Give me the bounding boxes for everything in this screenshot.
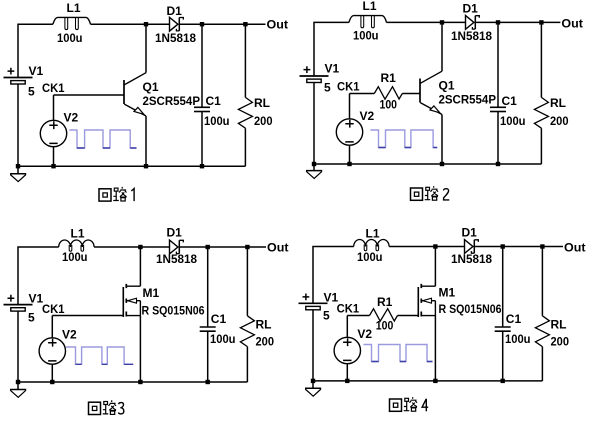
- node: Out: [267, 241, 289, 255]
- wire: D1 cathode to Out: [179, 23, 265, 25]
- wire: R1 to Q1 base: [402, 93, 420, 95]
- svg-text:M1: M1: [439, 286, 456, 300]
- wire: D1 cathode to Out: [475, 21, 560, 23]
- node: C1 bottom junction: [496, 162, 500, 166]
- wire: D1 cathode to Out: [179, 246, 266, 248]
- svg-text:200: 200: [551, 334, 570, 348]
- node: emitter junction: [440, 162, 444, 166]
- wire: L1 to D1 anode: [94, 246, 169, 248]
- node CK1: [42, 81, 65, 95]
- svg-text:C1: C1: [211, 312, 227, 326]
- wire: bottom rail: [18, 381, 247, 383]
- label: circuit name 回: [89, 402, 101, 414]
- svg-text:200: 200: [550, 114, 569, 128]
- svg-text:100u: 100u: [357, 250, 383, 264]
- capacitor C1 100u: [200, 247, 236, 382]
- wire: bottom rail: [313, 380, 542, 382]
- svg-text:RL: RL: [550, 96, 566, 110]
- inductor L1 100u: [349, 0, 387, 43]
- svg-text:2SCR554P: 2SCR554P: [439, 93, 497, 107]
- wire: V1 positive to L1 (left rail + top): [314, 22, 349, 76]
- wire: L1 to D1 anode: [387, 21, 466, 23]
- svg-text:Out: Out: [267, 241, 289, 255]
- svg-text:D1: D1: [167, 4, 183, 18]
- node: C1 top junction: [200, 22, 204, 26]
- svg-text:V1: V1: [325, 61, 340, 75]
- label: circuit number 3: [118, 403, 123, 414]
- wire: V1 positive to L1 (left rail + top): [313, 247, 354, 304]
- svg-text:RL: RL: [551, 318, 567, 332]
- svg-text:R1: R1: [381, 71, 397, 85]
- svg-text:200: 200: [256, 334, 275, 348]
- svg-text:C1: C1: [206, 94, 222, 108]
- transistor Q1 2SCR554P: [420, 71, 496, 114]
- wire: V2 plus to node CK1: [53, 95, 55, 121]
- battery V1 5V: [4, 292, 44, 325]
- waveform: V2 pulse train: [66, 347, 133, 364]
- svg-text:R SQ015N06: R SQ015N06: [142, 304, 205, 318]
- ground: [305, 381, 321, 396]
- svg-text:V2: V2: [360, 109, 375, 123]
- wire: M1 source to bottom rail: [139, 316, 141, 382]
- wire: V2 plus to node CK1: [51, 316, 53, 339]
- svg-text:L1: L1: [67, 1, 81, 15]
- pulse source V2: [39, 328, 77, 364]
- node: RL top junction: [540, 244, 544, 248]
- node: C1 top junction: [496, 20, 500, 24]
- circuit 2: boost converter with BJT: [300, 0, 583, 200]
- label: circuit name 回: [411, 188, 423, 200]
- svg-text:R1: R1: [377, 295, 393, 309]
- wire: CK1 to R1: [350, 93, 375, 95]
- svg-text:100u: 100u: [57, 31, 83, 45]
- svg-text:1N5818: 1N5818: [156, 252, 197, 266]
- svg-text:100u: 100u: [62, 250, 88, 264]
- node: RL top junction: [243, 22, 247, 26]
- node: RL top junction: [245, 245, 249, 249]
- svg-text:100u: 100u: [210, 332, 236, 346]
- node CK1: [337, 80, 360, 94]
- waveform: V2 pulse train: [69, 130, 136, 148]
- wire: CK1 to M1 gate: [52, 315, 123, 317]
- node: V2 bottom junction: [347, 162, 351, 166]
- wire: V1 negative to bottom rail: [17, 311, 19, 382]
- waveform: V2 pulse train: [364, 345, 433, 362]
- resistor R1 100: [374, 71, 402, 112]
- wire: V1 negative to bottom rail: [17, 84, 19, 166]
- battery V1 5V: [299, 290, 339, 322]
- wire: R1 to M1 gate: [398, 315, 419, 317]
- svg-text:V1: V1: [29, 64, 44, 78]
- label: circuit name 路: [425, 186, 438, 200]
- wire: Q1 emitter to bottom rail: [145, 116, 147, 166]
- svg-text:L1: L1: [71, 227, 85, 241]
- capacitor C1 100u: [194, 24, 230, 166]
- label: circuit name 回: [99, 189, 111, 201]
- svg-text:1N5818: 1N5818: [155, 31, 196, 45]
- svg-text:100u: 100u: [204, 114, 230, 128]
- circuit 1: boost converter with BJT: [4, 1, 289, 201]
- transistor M1 RSQ015N06 (N-MOSFET): [123, 284, 204, 318]
- svg-text:V2: V2: [357, 327, 372, 341]
- diode D1 1N5818 (Schottky): [156, 226, 197, 266]
- node: collector junction on top rail: [440, 20, 444, 24]
- svg-text:1N5818: 1N5818: [451, 252, 492, 266]
- node: C1 top junction: [501, 244, 505, 248]
- svg-text:Q1: Q1: [439, 79, 455, 93]
- wire: Q1 emitter to bottom rail: [441, 115, 443, 165]
- circuit 4: boost converter with MOSFET: [299, 226, 586, 412]
- ground: [10, 166, 26, 181]
- wire: V2 minus to bottom rail: [53, 147, 55, 167]
- node: ground junction: [16, 164, 20, 168]
- svg-text:5: 5: [324, 80, 331, 94]
- svg-text:2SCR554P: 2SCR554P: [143, 94, 201, 108]
- node: drain junction on top rail: [433, 244, 437, 248]
- node: RL top junction: [539, 20, 543, 24]
- wire: L1 to D1 anode: [91, 23, 170, 25]
- svg-text:D1: D1: [167, 226, 183, 240]
- node: ground junction: [312, 162, 316, 166]
- svg-text:D1: D1: [463, 2, 479, 16]
- wire: CK1 to R1: [347, 315, 369, 317]
- wire: M1 source to bottom rail: [434, 316, 436, 381]
- svg-text:1N5818: 1N5818: [451, 29, 492, 43]
- pulse source V2: [336, 109, 374, 145]
- wire: V2 plus to node CK1: [349, 94, 351, 120]
- wire: M1 drain to top rail: [139, 247, 141, 286]
- label: circuit name 路: [103, 400, 116, 414]
- node: Out: [561, 17, 583, 31]
- label: circuit name 回: [390, 399, 402, 411]
- wire: V1 negative to bottom rail: [312, 310, 314, 381]
- battery V1 5V: [4, 64, 44, 99]
- svg-text:5: 5: [28, 85, 35, 99]
- svg-text:M1: M1: [143, 286, 160, 300]
- capacitor C1 100u: [490, 22, 526, 164]
- diode D1 1N5818 (Schottky): [451, 2, 492, 43]
- node: C1 bottom junction: [206, 380, 210, 384]
- wire: L1 to D1 anode: [389, 246, 464, 248]
- svg-text:100u: 100u: [505, 332, 531, 346]
- node: source junction: [433, 379, 437, 383]
- label: circuit name 路: [404, 397, 417, 411]
- svg-text:100u: 100u: [353, 29, 379, 43]
- ground: [306, 164, 322, 178]
- node: ground junction: [311, 379, 315, 383]
- svg-text:CK1: CK1: [42, 81, 65, 95]
- wire: M1 drain to top rail: [434, 247, 436, 287]
- node: emitter junction: [144, 164, 148, 168]
- svg-text:5: 5: [28, 310, 35, 324]
- resistor RL 200: [238, 24, 272, 166]
- svg-text:Out: Out: [267, 17, 289, 31]
- diode D1 1N5818 (Schottky): [451, 226, 492, 266]
- wire: V2 plus to node CK1: [346, 316, 348, 338]
- wire: V1 positive to L1 (left rail + top): [18, 247, 59, 305]
- wire: V2 minus to bottom rail: [346, 364, 348, 381]
- inductor L1 100u: [53, 1, 91, 45]
- wire: Q1 collector to top rail: [145, 24, 147, 72]
- node CK1: [42, 302, 65, 316]
- node: drain junction on top rail: [138, 245, 142, 249]
- svg-text:Out: Out: [561, 17, 583, 31]
- wire: D1 cathode to Out: [474, 246, 563, 248]
- svg-text:200: 200: [254, 114, 273, 128]
- pulse source V2: [40, 110, 78, 146]
- svg-text:100: 100: [376, 318, 394, 332]
- svg-text:CK1: CK1: [337, 80, 360, 94]
- ground: [10, 382, 26, 397]
- svg-text:Q1: Q1: [143, 80, 159, 94]
- svg-text:C1: C1: [506, 312, 522, 326]
- circuit 3: boost converter with MOSFET: [4, 226, 289, 415]
- svg-text:C1: C1: [502, 94, 518, 108]
- svg-text:Out: Out: [564, 241, 586, 255]
- node: C1 top junction: [206, 245, 210, 249]
- node: Out: [564, 241, 586, 255]
- wire: CK1 to Q1 base: [54, 94, 125, 96]
- label: circuit number 1: [131, 189, 134, 202]
- svg-text:RL: RL: [256, 318, 272, 332]
- resistor R1 100: [370, 295, 398, 333]
- wire: V1 positive to L1 (left rail + top): [18, 24, 53, 77]
- svg-text:V2: V2: [64, 110, 79, 124]
- node CK1: [337, 302, 360, 316]
- node: source junction: [138, 380, 142, 384]
- svg-text:CK1: CK1: [337, 302, 360, 316]
- diode D1 1N5818 (Schottky): [155, 4, 196, 45]
- resistor RL 200: [534, 22, 568, 164]
- wire: bottom rail: [18, 165, 245, 167]
- inductor L1 100u: [354, 227, 389, 265]
- svg-text:D1: D1: [462, 226, 478, 240]
- wire: Q1 collector to top rail: [441, 22, 443, 71]
- wire: V2 minus to bottom rail: [51, 364, 53, 382]
- node: C1 bottom junction: [200, 164, 204, 168]
- svg-text:R SQ015N06: R SQ015N06: [439, 302, 502, 316]
- label: circuit number 2: [444, 189, 450, 200]
- svg-text:L1: L1: [363, 0, 377, 13]
- svg-text:V2: V2: [62, 328, 77, 342]
- transistor Q1 2SCR554P: [124, 73, 200, 116]
- node: collector junction on top rail: [144, 22, 148, 26]
- label: circuit number 4: [422, 399, 428, 412]
- transistor M1 RSQ015N06 (N-MOSFET): [418, 284, 501, 317]
- svg-text:CK1: CK1: [42, 302, 65, 316]
- node: V2 bottom junction: [50, 380, 54, 384]
- node: C1 bottom junction: [501, 379, 505, 383]
- waveform: V2 pulse train: [370, 130, 437, 148]
- pulse source V2: [334, 327, 372, 363]
- resistor RL 200: [240, 247, 274, 382]
- capacitor C1 100u: [495, 247, 531, 381]
- wire: bottom rail: [314, 163, 541, 165]
- wire: V2 minus to bottom rail: [349, 145, 351, 164]
- inductor L1 100u: [59, 227, 94, 265]
- wire: V1 negative to bottom rail: [313, 83, 315, 165]
- label: circuit name 路: [113, 187, 126, 201]
- battery V1 5V: [300, 61, 340, 94]
- svg-text:100u: 100u: [500, 114, 526, 128]
- svg-text:100: 100: [380, 98, 398, 112]
- svg-text:L1: L1: [366, 227, 380, 241]
- node: V2 bottom junction: [51, 164, 55, 168]
- svg-text:5: 5: [323, 309, 330, 323]
- node: ground junction: [16, 380, 20, 384]
- resistor RL 200: [535, 247, 569, 381]
- svg-text:RL: RL: [254, 96, 270, 110]
- node: V2 bottom junction: [345, 379, 349, 383]
- node: Out: [267, 17, 289, 31]
